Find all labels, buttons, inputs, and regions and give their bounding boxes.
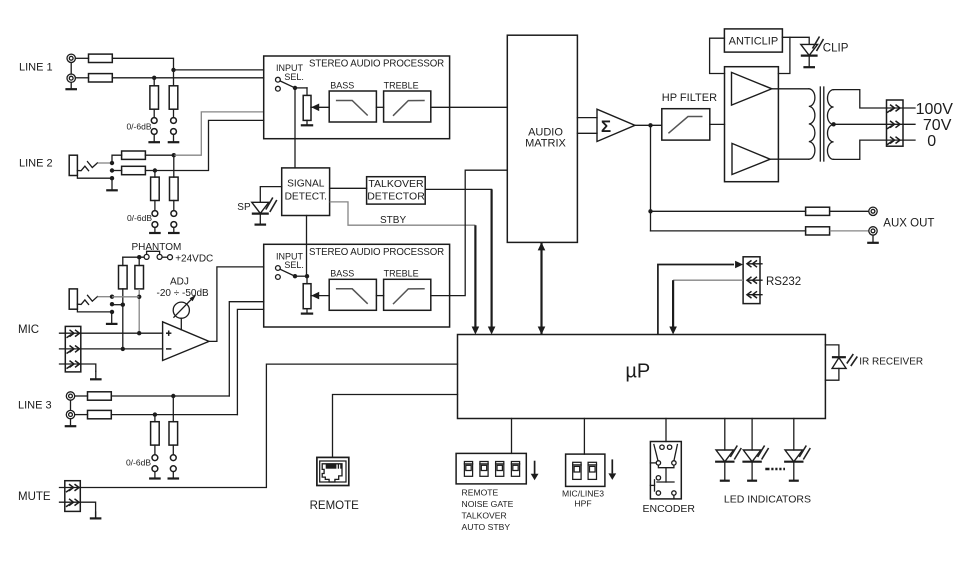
potentiometer ADJ gain bbox=[173, 302, 189, 318]
svg-text:Σ: Σ bbox=[601, 117, 611, 136]
wire MIC- to opamp bbox=[81, 348, 163, 350]
resistor LINE2-R series bbox=[112, 170, 122, 172]
DIP switch bank 4x bbox=[456, 453, 526, 484]
wire sum out to aux bbox=[650, 125, 652, 211]
wire processor2 out to matrix bbox=[450, 170, 508, 295]
wire uP to RS232 tx bbox=[658, 265, 734, 335]
svg-text:0/-6dB: 0/-6dB bbox=[126, 121, 151, 131]
svg-text:STEREO AUDIO PROCESSOR: STEREO AUDIO PROCESSOR bbox=[309, 247, 444, 258]
svg-text:AUX OUT: AUX OUT bbox=[883, 217, 934, 229]
svg-text:0/-6dB: 0/-6dB bbox=[126, 458, 151, 468]
svg-text:0: 0 bbox=[927, 133, 936, 150]
svg-text:HPF: HPF bbox=[574, 498, 591, 508]
wire uP to LED1 bbox=[724, 419, 726, 451]
wire MUTE return to ground bbox=[80, 502, 95, 518]
svg-text:SEL.: SEL. bbox=[284, 72, 304, 82]
resistor LINE1-L series bbox=[89, 54, 113, 62]
ground CLIP LED bbox=[808, 56, 810, 68]
connector J2 jack LINE2 bbox=[69, 155, 77, 175]
svg-text:IR RECEIVER: IR RECEIVER bbox=[859, 356, 923, 367]
wire J5 shield link bbox=[70, 400, 72, 410]
block BASS filter bbox=[329, 91, 376, 122]
wire uP to LED2 bbox=[751, 419, 753, 451]
svg-text:TREBLE: TREBLE bbox=[384, 269, 419, 279]
connector RS232 port bbox=[743, 257, 760, 304]
wire LINE3-L to processor2 bbox=[111, 395, 229, 397]
wire matrix to sum upper bbox=[577, 117, 597, 119]
wire phantom feed bbox=[123, 256, 144, 258]
wire aux R to rca bbox=[830, 230, 869, 232]
svg-text:MIC/LINE3: MIC/LINE3 bbox=[562, 488, 604, 498]
connector speaker terminals bbox=[887, 100, 904, 146]
svg-text:SEL.: SEL. bbox=[284, 260, 304, 270]
svg-text:BASS: BASS bbox=[330, 269, 354, 279]
rotary ENCODER bbox=[650, 442, 681, 499]
ground J5 bbox=[70, 419, 72, 426]
wire selector1 to signal detect bbox=[294, 88, 296, 168]
svg-text:DETECT.: DETECT. bbox=[285, 192, 327, 203]
wire SP feed bbox=[260, 187, 281, 203]
svg-text:SP: SP bbox=[237, 202, 251, 213]
connector J5 RCA LINE3-L bbox=[66, 392, 74, 400]
wire aux R drop bbox=[650, 211, 652, 231]
ground J3 bbox=[111, 312, 113, 324]
svg-text:CLIP: CLIP bbox=[823, 42, 849, 54]
ground J2 bbox=[111, 180, 113, 190]
svg-text:STBY: STBY bbox=[380, 215, 406, 226]
wire LINE1 shunt drops bbox=[153, 78, 155, 86]
wire J1 shield link bbox=[70, 63, 72, 75]
resistor aux R bbox=[806, 227, 830, 235]
op-amp A1 upper power bbox=[732, 72, 772, 105]
wire uP to DIP4 bbox=[511, 419, 513, 454]
svg-text:MATRIX: MATRIX bbox=[525, 138, 566, 150]
wire secondary 100V tap bbox=[834, 90, 887, 108]
connector RJ45 REMOTE bbox=[317, 457, 349, 485]
block HP FILTER bbox=[662, 109, 710, 140]
wire J3 ring to R-A bbox=[112, 304, 123, 306]
wire signal detect to selector2 bbox=[306, 216, 308, 277]
svg-text:-20 ÷ -50dB: -20 ÷ -50dB bbox=[157, 288, 210, 299]
wire BASS-TREBLE link bbox=[376, 106, 383, 108]
LED CLIP bbox=[801, 44, 818, 55]
wire uP to LED3 bbox=[793, 419, 795, 451]
svg-text:µP: µP bbox=[625, 361, 650, 383]
wire BASS out to pot with arrow bbox=[311, 295, 329, 297]
svg-text:DETECTOR: DETECTOR bbox=[367, 190, 425, 202]
wire LINE2-L to selector bbox=[145, 154, 173, 156]
resistor LINE2-L series bbox=[122, 151, 146, 159]
wire RS232 to uP rx bbox=[673, 279, 743, 281]
wire secondary 70V tap bbox=[834, 123, 887, 125]
svg-text:MIC: MIC bbox=[18, 324, 39, 336]
svg-text:SIGNAL: SIGNAL bbox=[287, 179, 325, 190]
svg-text:BASS: BASS bbox=[330, 80, 354, 90]
wire LINE2 shunt drops bbox=[154, 171, 156, 178]
ground SP LED bbox=[259, 214, 261, 225]
wire phantom R-A to mic minus bbox=[122, 289, 124, 349]
connector J3 jack MIC combo bbox=[69, 289, 77, 309]
svg-text:LINE 1: LINE 1 bbox=[19, 61, 53, 73]
LED IR receiver bbox=[825, 345, 839, 357]
op-amp U1 mic preamp bbox=[163, 322, 209, 361]
svg-text:LINE 3: LINE 3 bbox=[18, 399, 52, 411]
wire TREBLE output bbox=[431, 106, 450, 108]
arrow DIP2 direction bbox=[611, 459, 613, 473]
wire amp lower out bbox=[770, 158, 809, 160]
svg-text:REMOTE: REMOTE bbox=[462, 488, 499, 498]
wire selector to level pot bbox=[295, 275, 307, 277]
svg-text:AUTO STBY: AUTO STBY bbox=[462, 522, 511, 532]
wire secondary 0V tap bbox=[834, 140, 887, 159]
block SIGNAL DETECT bbox=[282, 168, 330, 216]
resistor LINE1-R shunt bbox=[150, 86, 159, 109]
transformer T1 core bbox=[819, 87, 821, 161]
wire MIC shield to ground bbox=[81, 364, 96, 371]
connector AUX RCA L bbox=[869, 207, 877, 215]
connector J1 RCA LINE1-R bbox=[67, 74, 75, 82]
wire LINE3-R to processor2 bbox=[111, 414, 237, 416]
amplifier block PA bbox=[725, 67, 779, 182]
wire uP to DIP2 bbox=[583, 419, 585, 455]
wire signal detect to talkover bbox=[330, 187, 367, 189]
potentiometer level bbox=[303, 284, 311, 309]
svg-text:100V: 100V bbox=[916, 101, 953, 118]
block TALKOVER DETECTOR bbox=[367, 177, 426, 204]
switch input selector bbox=[276, 77, 281, 82]
wire processor1 out to matrix bbox=[450, 106, 508, 108]
block TREBLE filter bbox=[384, 91, 431, 122]
resistor LINE2-L shunt bbox=[170, 177, 179, 200]
connector J5 RCA LINE3-R bbox=[66, 410, 74, 418]
svg-text:LED INDICATORS: LED INDICATORS bbox=[724, 493, 811, 505]
svg-text:AUDIO: AUDIO bbox=[528, 126, 563, 138]
switch LINE3 0/-6dB pads bbox=[154, 445, 156, 455]
block uP microprocessor bbox=[458, 335, 826, 419]
DIP switch bank 2x bbox=[566, 454, 605, 486]
wire STBY to uP bbox=[330, 202, 476, 225]
svg-text:TREBLE: TREBLE bbox=[384, 80, 419, 90]
connector J1 RCA LINE1-L bbox=[67, 54, 75, 62]
wire MUTE to uP bbox=[80, 364, 457, 487]
svg-text:NOISE GATE: NOISE GATE bbox=[462, 499, 514, 509]
block BASS filter bbox=[329, 279, 376, 310]
wire selector to level pot bbox=[295, 87, 307, 89]
LED SP bbox=[252, 202, 269, 213]
transformer T1 primary bbox=[809, 89, 815, 159]
LED indicator 1 bbox=[716, 450, 734, 462]
wire uP to encoder bbox=[665, 419, 667, 442]
ground AUX bbox=[872, 235, 874, 243]
svg-text:TALKOVER: TALKOVER bbox=[368, 178, 424, 190]
switch phantom S1 bbox=[144, 254, 149, 259]
potentiometer level bbox=[303, 95, 311, 120]
wire opamp out to processor2 bbox=[209, 267, 264, 342]
svg-text:ADJ: ADJ bbox=[170, 277, 189, 288]
op-amp A2 lower power bbox=[732, 143, 770, 174]
svg-text:HP FILTER: HP FILTER bbox=[662, 92, 717, 104]
wire aux L bbox=[651, 210, 806, 212]
resistor LINE1-R series bbox=[89, 74, 113, 82]
svg-text:RS232: RS232 bbox=[766, 276, 801, 288]
resistor LINE3-R series bbox=[75, 414, 88, 416]
wire matrix to uP control bbox=[540, 242, 542, 334]
switch input selector bbox=[276, 266, 281, 271]
svg-text:0/-6dB: 0/-6dB bbox=[127, 213, 152, 223]
connector J4 MIC XLR bbox=[65, 326, 81, 372]
connector J6 MUTE bbox=[65, 481, 81, 512]
wire anticlip left loop bbox=[710, 38, 725, 73]
wire J3 tip to R-B bbox=[112, 296, 139, 298]
op-amp U2 summing bbox=[597, 109, 635, 141]
block STEREO AUDIO PROCESSOR bbox=[264, 56, 450, 139]
svg-text:TALKOVER: TALKOVER bbox=[462, 511, 507, 521]
ground level pot bbox=[306, 120, 308, 125]
wire sum out bbox=[635, 124, 662, 126]
resistor LINE3-L shunt bbox=[169, 422, 178, 445]
wire TREBLE output bbox=[431, 295, 450, 297]
svg-text:MUTE: MUTE bbox=[18, 491, 51, 503]
svg-text:LINE 2: LINE 2 bbox=[19, 157, 53, 169]
svg-text:REMOTE: REMOTE bbox=[310, 500, 360, 512]
connector AUX RCA R bbox=[869, 227, 877, 235]
block TREBLE filter bbox=[384, 279, 431, 310]
switch LINE1 0/-6dB pads bbox=[153, 109, 155, 117]
wire LINE3 shunt drops bbox=[154, 415, 156, 422]
svg-text:+24VDC: +24VDC bbox=[175, 253, 213, 264]
ground level pot bbox=[306, 309, 308, 314]
wire LINE1-R to selector bbox=[75, 77, 88, 79]
resistor phantom R-A bbox=[119, 266, 128, 289]
svg-text:ENCODER: ENCODER bbox=[643, 503, 696, 515]
resistor phantom R-B bbox=[135, 266, 144, 289]
resistor LINE3-L series bbox=[75, 395, 88, 397]
ground J1 bbox=[70, 82, 72, 89]
wire BASS-TREBLE link bbox=[376, 295, 383, 297]
wire MIC+ to opamp bbox=[81, 332, 163, 334]
transformer T1 secondary bbox=[827, 90, 833, 160]
wire uP to remote jack bbox=[333, 395, 458, 458]
wire matrix to sum lower bbox=[577, 132, 597, 134]
wire J2 tip jog bbox=[112, 155, 122, 163]
wire phantom R-B to mic plus bbox=[138, 289, 140, 333]
wire LINE2-R to selector bbox=[145, 170, 155, 172]
block STEREO AUDIO PROCESSOR bbox=[264, 244, 450, 327]
block AUDIO MATRIX bbox=[507, 35, 577, 242]
wire hp filter to amp bbox=[710, 123, 725, 125]
svg-text:70V: 70V bbox=[923, 117, 952, 134]
svg-text:ANTICLIP: ANTICLIP bbox=[729, 36, 779, 48]
wire talkover to uP bbox=[425, 188, 491, 190]
LED indicator 3 bbox=[785, 450, 803, 462]
resistor LINE3-R shunt bbox=[151, 422, 160, 445]
wire anticlip right loop bbox=[782, 37, 809, 44]
resistor LINE1-L shunt bbox=[169, 86, 178, 109]
wire aux L to rca bbox=[830, 210, 869, 212]
resistor LINE2-R shunt bbox=[151, 177, 160, 200]
svg-text:STEREO AUDIO PROCESSOR: STEREO AUDIO PROCESSOR bbox=[309, 59, 444, 70]
resistor aux L bbox=[806, 207, 830, 215]
LED indicator 2 bbox=[743, 450, 761, 462]
block ANTICLIP bbox=[724, 29, 782, 52]
switch LINE2 0/-6dB pads bbox=[154, 201, 156, 211]
wire LINE1-L to selector bbox=[75, 57, 88, 59]
arrow DIP4 direction bbox=[534, 461, 536, 475]
node ellipsis between LEDs bbox=[765, 468, 785, 471]
wire BASS out to pot with arrow bbox=[311, 106, 329, 108]
wire amp upper out bbox=[772, 88, 809, 90]
